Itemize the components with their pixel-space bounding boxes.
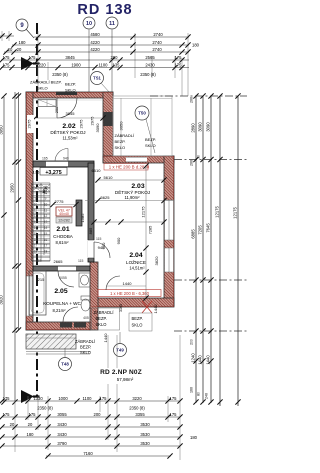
svg-text:2.02: 2.02 <box>62 123 75 130</box>
railing note bottom right <box>129 313 152 331</box>
svg-text:1440: 1440 <box>123 281 133 286</box>
svg-text:10: 10 <box>34 202 38 206</box>
svg-text:175: 175 <box>33 170 40 175</box>
svg-text:11: 11 <box>44 208 48 212</box>
svg-text:175: 175 <box>170 412 178 417</box>
svg-text:2740: 2740 <box>153 32 163 37</box>
svg-text:115: 115 <box>78 259 84 263</box>
svg-text:1220: 1220 <box>36 62 46 67</box>
svg-text:180: 180 <box>192 43 200 48</box>
svg-text:13: 13 <box>34 220 38 224</box>
svg-text:165: 165 <box>42 157 48 161</box>
svg-text:3430: 3430 <box>57 432 67 437</box>
svg-text:7160: 7160 <box>83 451 93 456</box>
svg-text:2350 (8): 2350 (8) <box>52 72 68 77</box>
door arc to bathroom <box>58 271 74 287</box>
right dim chains vertical lines <box>195 96 197 403</box>
svg-text:3090: 3090 <box>95 123 100 133</box>
terrace inner dim line <box>120 98 122 156</box>
svg-text:6885: 6885 <box>191 229 196 239</box>
svg-text:180: 180 <box>19 40 27 45</box>
svg-text:20: 20 <box>8 47 13 52</box>
svg-text:+3,275: +3,275 <box>45 170 61 176</box>
svg-text:175: 175 <box>29 412 37 417</box>
svg-text:3845: 3845 <box>65 55 75 60</box>
svg-text:175: 175 <box>175 62 183 67</box>
svg-text:ZÁBRADLÍ BEZP.: ZÁBRADLÍ BEZP. <box>30 80 62 85</box>
left dim ticks <box>12 93 17 98</box>
svg-text:8,61m²: 8,61m² <box>55 240 69 245</box>
svg-text:2350 (8): 2350 (8) <box>37 406 53 411</box>
partition wall corridor / room 2.03 vertical <box>88 163 94 262</box>
svg-text:200: 200 <box>190 97 194 103</box>
svg-text:12175: 12175 <box>215 206 220 218</box>
svg-text:2740: 2740 <box>152 47 162 52</box>
grid bubble 11 <box>106 17 118 29</box>
svg-text:1900: 1900 <box>71 62 81 67</box>
svg-text:240: 240 <box>205 393 209 399</box>
svg-text:BEZP.: BEZP. <box>115 139 126 144</box>
svg-text:SKLO: SKLO <box>37 86 48 91</box>
svg-text:2350 (8): 2350 (8) <box>140 72 156 77</box>
bottom dim row 4 <box>2 436 180 438</box>
svg-text:40x40: 40x40 <box>59 212 69 216</box>
svg-text:5625: 5625 <box>101 195 111 200</box>
terrace door opening right wing top wall <box>126 157 147 162</box>
top dim row 4220 / 2740 second <box>4 51 189 53</box>
svg-text:7285: 7285 <box>149 226 153 234</box>
window bubble T48 <box>59 358 72 371</box>
terrace window extension line <box>150 98 152 156</box>
balcony door bottom wall <box>60 323 72 328</box>
svg-text:SKLO: SKLO <box>132 323 143 328</box>
window right wall room 2.03 <box>165 200 174 240</box>
staircase treads <box>32 183 51 262</box>
svg-text:1 x HE 200 B d.2830: 1 x HE 200 B d.2830 <box>109 165 150 170</box>
interior chain 12175 <box>145 166 147 298</box>
top dim row 3845 / 2565 <box>1 59 189 61</box>
svg-text:115: 115 <box>36 259 42 263</box>
svg-text:18: 18 <box>44 250 48 254</box>
ceiling edge under top wall <box>33 99 103 101</box>
svg-text:180: 180 <box>27 432 35 437</box>
svg-text:7205: 7205 <box>198 225 203 235</box>
door arc corridor to 2.02 <box>55 149 68 162</box>
svg-text:7645: 7645 <box>206 223 211 233</box>
svg-text:3790: 3790 <box>57 441 67 446</box>
svg-text:RD 138: RD 138 <box>77 2 132 18</box>
svg-text:2890: 2890 <box>191 123 196 133</box>
svg-text:18: 18 <box>34 250 38 254</box>
wall exterior right of upper-left block <box>103 92 113 162</box>
svg-text:2565: 2565 <box>145 55 155 60</box>
red beam note HE 200 B <box>98 290 161 297</box>
svg-text:SKLO: SKLO <box>145 143 156 148</box>
svg-text:1440: 1440 <box>198 355 203 365</box>
svg-text:2.04: 2.04 <box>129 252 142 259</box>
svg-text:1440: 1440 <box>206 355 211 365</box>
svg-text:3055: 3055 <box>57 412 67 417</box>
red beam note d.2830 <box>104 164 148 171</box>
svg-text:SKLO: SKLO <box>96 322 107 327</box>
svg-text:1585: 1585 <box>80 213 85 223</box>
gray stair note 12x282 <box>56 217 72 223</box>
bottom dim row 6 total 7160 <box>46 455 171 457</box>
svg-text:3530: 3530 <box>140 432 150 437</box>
top dim row 1220 1900 1100 / 2430 <box>1 67 189 69</box>
svg-text:14,51m²: 14,51m² <box>129 266 145 271</box>
svg-text:KOUPELNA + WC: KOUPELNA + WC <box>43 301 81 306</box>
svg-text:175: 175 <box>170 396 178 401</box>
wall exterior top of right wing <box>103 156 174 163</box>
svg-text:3355: 3355 <box>135 412 145 417</box>
section arrow top <box>21 57 34 70</box>
interior dim line y200 room 2.03 <box>85 200 174 202</box>
svg-text:14: 14 <box>34 226 38 230</box>
svg-text:9: 9 <box>45 197 47 201</box>
right dim ticks <box>193 93 198 98</box>
bottom dim row 5 <box>2 445 180 447</box>
centerline horizontal top (terrace) <box>150 95 247 97</box>
svg-text:1445: 1445 <box>43 185 48 195</box>
centerline horizontal right wing top <box>174 159 247 161</box>
svg-text:3050: 3050 <box>119 121 124 131</box>
svg-text:940: 940 <box>63 157 69 161</box>
svg-text:900: 900 <box>116 237 121 244</box>
railing note bottom middle <box>92 308 120 330</box>
svg-text:200: 200 <box>111 55 119 60</box>
partition wall between room 2.02 and corridor <box>33 161 94 167</box>
svg-text:3430: 3430 <box>57 422 67 427</box>
svg-text:3090: 3090 <box>206 122 211 132</box>
grid bubble 9 <box>16 19 28 31</box>
wall middle vertical (bathroom/loznice) <box>90 262 98 330</box>
red facade line bottom right wing <box>92 306 174 308</box>
svg-text:11: 11 <box>34 208 38 212</box>
svg-text:20: 20 <box>10 422 15 427</box>
interior dim 5610 <box>98 179 164 181</box>
svg-text:175: 175 <box>175 55 183 60</box>
svg-text:175: 175 <box>3 396 11 401</box>
window type bubble TS1 <box>91 72 104 85</box>
svg-text:175: 175 <box>3 62 11 67</box>
svg-text:30: 30 <box>197 155 201 159</box>
grid line 10 <box>88 29 90 92</box>
svg-text:11: 11 <box>109 21 115 27</box>
svg-text:3220: 3220 <box>132 396 142 401</box>
level mark +3,275 <box>40 168 67 176</box>
stair top landing cross <box>32 185 51 192</box>
window left wall bathroom <box>27 276 33 316</box>
svg-text:8,21m²: 8,21m² <box>52 308 66 313</box>
svg-text:115: 115 <box>96 237 102 241</box>
svg-text:2975: 2975 <box>79 119 84 129</box>
svg-text:6610: 6610 <box>92 168 102 173</box>
top dimension extension lines <box>37 31 39 92</box>
svg-text:DĚTSKÝ POKOJ: DĚTSKÝ POKOJ <box>50 128 85 135</box>
wall exterior left <box>26 92 33 330</box>
svg-text:BEZP.: BEZP. <box>65 82 76 87</box>
svg-text:1000: 1000 <box>58 396 68 401</box>
svg-text:14: 14 <box>44 226 48 230</box>
top dim row 4220 / 2740 <box>12 44 189 46</box>
svg-text:1440: 1440 <box>153 304 158 314</box>
door arc bathroom balcony <box>63 307 78 322</box>
svg-text:BEZP.: BEZP. <box>145 137 156 142</box>
svg-text:405: 405 <box>83 316 89 320</box>
red skylight box VEL <box>56 207 72 216</box>
svg-text:T50: T50 <box>138 111 146 116</box>
svg-text:175: 175 <box>3 55 11 60</box>
section line A-A vertical <box>36 23 38 396</box>
svg-text:3845: 3845 <box>66 111 76 116</box>
svg-text:4580: 4580 <box>90 32 100 37</box>
svg-text:BEZP.: BEZP. <box>80 345 91 350</box>
svg-text:135: 135 <box>113 62 121 67</box>
bottom dim row 2 <box>2 416 180 418</box>
svg-text:200: 200 <box>94 412 102 417</box>
svg-text:11,53m²: 11,53m² <box>62 136 78 141</box>
svg-text:BEZP.: BEZP. <box>96 316 107 321</box>
svg-text:CHODBA: CHODBA <box>53 234 74 239</box>
svg-text:3530: 3530 <box>140 422 150 427</box>
svg-text:10: 10 <box>44 202 48 206</box>
interior dim 2775 corridor <box>53 204 76 206</box>
svg-text:T48: T48 <box>61 362 69 367</box>
terrace outline top right <box>113 96 172 156</box>
svg-text:17: 17 <box>34 244 38 248</box>
red facade line top wall <box>26 92 113 94</box>
svg-text:3820: 3820 <box>154 256 159 266</box>
svg-text:ZÁBRADLÍ: ZÁBRADLÍ <box>94 310 115 315</box>
svg-text:2740: 2740 <box>152 40 162 45</box>
partition stub in corridor <box>76 200 82 226</box>
svg-text:200: 200 <box>190 160 194 166</box>
red facade line right wing top wall <box>103 156 174 158</box>
red facade line left wall <box>26 92 28 330</box>
svg-text:1100: 1100 <box>82 396 92 401</box>
centerline horizontal middle <box>174 279 247 281</box>
svg-text:215: 215 <box>38 277 45 282</box>
toilet WC <box>81 296 90 300</box>
svg-text:LOŽNICE: LOŽNICE <box>126 258 146 265</box>
svg-text:2775: 2775 <box>55 199 65 204</box>
svg-text:2.05: 2.05 <box>54 288 67 295</box>
svg-text:3950: 3950 <box>0 125 4 135</box>
partition wall corridor / bathroom <box>33 266 90 271</box>
svg-text:13: 13 <box>44 220 48 224</box>
bottom dim row 1 <box>2 400 180 402</box>
svg-text:2.03: 2.03 <box>131 183 144 190</box>
red facade line bathroom bottom <box>26 329 90 331</box>
svg-text:ZÁBRADLÍ: ZÁBRADLÍ <box>115 133 135 138</box>
svg-text:16: 16 <box>44 238 48 242</box>
small dim 40 top left <box>1 31 3 41</box>
svg-text:4220: 4220 <box>90 47 100 52</box>
svg-text:12175: 12175 <box>141 206 146 218</box>
wall exterior bottom of right wing <box>92 298 174 307</box>
top dim row 4580 / 2740 <box>34 36 189 38</box>
stair walking line with arrow <box>43 190 45 255</box>
svg-text:1330: 1330 <box>33 396 43 401</box>
wall exterior bottom of bathroom <box>26 322 90 330</box>
svg-text:3090: 3090 <box>198 122 203 132</box>
svg-text:T49: T49 <box>116 348 124 353</box>
centerline horizontal lower <box>174 330 247 332</box>
svg-text:12175: 12175 <box>233 207 238 219</box>
svg-text:290: 290 <box>55 107 59 113</box>
grid bubble 10 <box>83 17 95 29</box>
svg-text:200: 200 <box>190 339 194 345</box>
svg-text:2.01: 2.01 <box>56 226 69 233</box>
svg-text:12: 12 <box>44 214 48 218</box>
svg-text:SKLO: SKLO <box>115 145 126 150</box>
washbasin <box>79 273 90 287</box>
svg-text:2975: 2975 <box>27 119 32 129</box>
interior dim chain y222 between 2.03/2.04 <box>88 221 164 223</box>
svg-text:3165: 3165 <box>119 304 123 312</box>
svg-text:3530: 3530 <box>140 441 150 446</box>
svg-text:20: 20 <box>28 422 33 427</box>
bathtub <box>29 271 46 315</box>
window type bubble T50 <box>135 106 149 120</box>
bottom dim extension lines <box>14 396 16 452</box>
door swing top wall <box>57 98 77 118</box>
svg-text:9: 9 <box>35 197 37 201</box>
svg-text:175: 175 <box>29 55 37 60</box>
svg-text:3920: 3920 <box>0 295 4 305</box>
door arc to loznice <box>106 276 120 290</box>
svg-text:16: 16 <box>34 238 38 242</box>
window bubble T49 <box>114 344 127 357</box>
interior dim 3845 room 2.02 <box>35 117 103 119</box>
wall exterior right of right wing <box>164 156 174 306</box>
svg-text:5610: 5610 <box>104 175 114 180</box>
svg-text:15: 15 <box>44 232 48 236</box>
balcony railing lines <box>26 351 90 353</box>
balcony slab hatched <box>26 334 76 349</box>
svg-text:15: 15 <box>34 232 38 236</box>
grid line 11 <box>111 29 113 96</box>
svg-text:4220: 4220 <box>90 40 100 45</box>
red cross mark wall corner <box>142 301 152 313</box>
svg-text:20: 20 <box>17 47 22 52</box>
svg-text:11,90m²: 11,90m² <box>124 195 140 200</box>
svg-text:BEZP.: BEZP. <box>132 316 143 321</box>
window in right wall of 2.02 <box>104 112 113 126</box>
svg-text:2350 (8): 2350 (8) <box>129 406 145 411</box>
section arrow bottom <box>21 390 34 403</box>
svg-text:175: 175 <box>3 412 11 417</box>
svg-text:RD 2.NP N0Z: RD 2.NP N0Z <box>100 369 142 376</box>
svg-text:2430: 2430 <box>145 62 155 67</box>
svg-text:10: 10 <box>86 21 92 27</box>
svg-text:TS1: TS1 <box>93 76 101 81</box>
bubble 9 stem <box>26 29 34 38</box>
door arc corridor to 2.03 <box>94 242 110 258</box>
interior dim 1440 loznice <box>107 285 146 287</box>
svg-text:2665: 2665 <box>54 259 64 264</box>
svg-text:12x282: 12x282 <box>58 219 70 223</box>
svg-text:80: 80 <box>197 392 201 396</box>
svg-text:180: 180 <box>190 435 198 440</box>
svg-text:SKLO: SKLO <box>80 350 91 355</box>
svg-text:17: 17 <box>44 244 48 248</box>
red facade line right wall <box>173 156 175 307</box>
svg-text:160: 160 <box>190 387 194 393</box>
svg-text:2975: 2975 <box>90 116 95 126</box>
left dim chain lines <box>14 92 16 402</box>
svg-text:57,98m²: 57,98m² <box>117 377 134 382</box>
svg-text:12: 12 <box>34 214 38 218</box>
bottom dim row 3 <box>2 426 180 428</box>
svg-text:DĚTSKÝ POKOJ: DĚTSKÝ POKOJ <box>115 188 150 195</box>
svg-text:885: 885 <box>88 227 93 234</box>
window lintel in top wall <box>56 92 77 96</box>
wall exterior top (room 2.02) <box>26 92 113 98</box>
svg-text:1 x HE 200 B - 6,360: 1 x HE 200 B - 6,360 <box>110 291 150 296</box>
wardrobe room 2.02 <box>38 100 56 107</box>
svg-text:1100: 1100 <box>98 62 108 67</box>
svg-text:ZÁBRADLÍ: ZÁBRADLÍ <box>75 339 96 344</box>
svg-text:1240: 1240 <box>191 353 196 363</box>
svg-text:1440: 1440 <box>103 333 108 343</box>
svg-text:2950: 2950 <box>10 183 15 193</box>
svg-text:175: 175 <box>100 396 108 401</box>
